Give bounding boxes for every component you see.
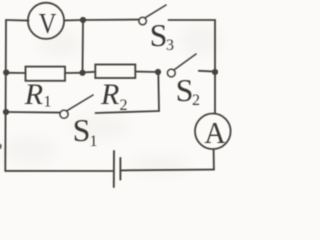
wire voltmeter to node B [64, 19, 83, 21]
svg-text:A: A [204, 115, 225, 150]
wire S2 to node D [199, 70, 215, 73]
resistor R2 (box) [95, 65, 135, 79]
svg-text:3: 3 [166, 37, 174, 54]
wire S3 to top-right corner [169, 19, 216, 21]
resistor R1 (box) [26, 67, 66, 81]
wire top-left segment [6, 19, 29, 22]
scan speck at left edge [0, 144, 2, 150]
wire R2 to node E [135, 71, 158, 73]
switch S2 hinge circle [167, 69, 175, 77]
svg-text:S: S [73, 112, 91, 148]
svg-text:1: 1 [90, 133, 98, 150]
wire right vertical (top) [214, 20, 216, 113]
switch S1 hinge circle [60, 110, 68, 118]
svg-text:1: 1 [44, 94, 52, 111]
wire S1 to riser [96, 111, 160, 113]
svg-text:R: R [100, 78, 119, 111]
svg-text:2: 2 [192, 92, 200, 109]
node A1 junction dot [3, 69, 9, 75]
switch S1 blade [67, 95, 93, 111]
ammeter A (circle) [195, 114, 231, 150]
svg-text:V: V [39, 7, 57, 39]
wire node B to node C vertical [82, 20, 85, 73]
battery short plate [119, 158, 121, 180]
wire left to R1 [6, 72, 25, 74]
wire ammeter to bottom wire [213, 149, 215, 169]
switch S3 hinge circle [139, 17, 147, 25]
svg-text:2: 2 [120, 97, 128, 114]
wire node C to R2 [83, 71, 96, 74]
voltmeter V (circle) [28, 3, 64, 39]
wire R1 to node C [65, 72, 83, 74]
node B junction dot [80, 17, 86, 23]
wire riser S1-branch to node E [157, 72, 160, 111]
wire bottom right segment [121, 169, 214, 172]
wire node B to switch S3 [83, 19, 139, 21]
wire bottom left segment [5, 170, 114, 172]
faint scan mottle [4, 24, 220, 175]
node C junction dot [79, 70, 85, 76]
svg-text:S: S [176, 72, 194, 108]
wire left vertical [4, 20, 7, 171]
switch S2 blade [174, 54, 196, 70]
svg-text:S: S [150, 17, 168, 53]
svg-text:R: R [24, 78, 43, 111]
node E junction dot [155, 69, 161, 75]
node D junction dot [212, 69, 218, 75]
battery long plate [113, 151, 115, 187]
node A2 junction dot [3, 109, 9, 115]
switch S3 blade [145, 5, 166, 18]
wire left to S1 [6, 111, 60, 114]
